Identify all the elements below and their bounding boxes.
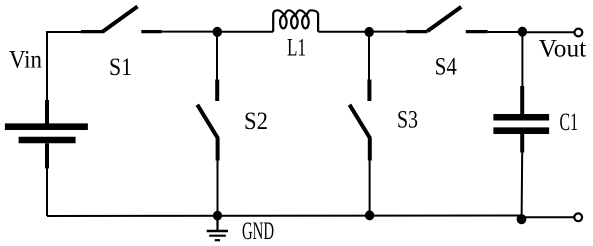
svg-text:Vout: Vout [539, 35, 587, 62]
wire: S4 left contact bar [406, 30, 427, 33]
node: S3 bottom junction dot [365, 210, 374, 220]
wire: node B to S4 [369, 31, 407, 33]
battery Vin [5, 100, 88, 168]
switch S3 [350, 32, 371, 216]
wire: S2 blade [197, 105, 218, 139]
wire: node B down to S3 [368, 32, 370, 80]
wire: S1 left contact bar [81, 30, 104, 33]
wire: S2 bottom contact bar [216, 138, 220, 161]
wire: battery bottom thick lead [45, 143, 49, 168]
wire: bottom ground rail [47, 215, 522, 218]
wire: S3 bottom contact bar [368, 138, 372, 161]
ground symbol [207, 216, 228, 241]
node B junction dot [365, 27, 374, 37]
svg-text:L1: L1 [287, 34, 306, 61]
wire: node C down to C1 [521, 32, 523, 87]
svg-text:Vin: Vin [9, 47, 42, 74]
svg-text:C1: C1 [560, 109, 579, 136]
wire: L1 to node B [318, 31, 369, 33]
svg-text:S4: S4 [435, 54, 457, 81]
wire: S3 to bottom rail [369, 160, 371, 216]
wire: node C to Vout terminal [523, 31, 575, 33]
terminal: bottom output open circle [574, 213, 582, 221]
svg-text:S3: S3 [397, 107, 418, 134]
C1 bottom plate [493, 127, 549, 134]
wire: S2 top contact bar [215, 80, 219, 102]
ground bar 2 [209, 235, 226, 237]
wire: ground stem [216, 216, 218, 231]
wire: bottom node to output terminal [522, 216, 575, 218]
wire: Vin positive lead up and top rail to S1 [47, 32, 81, 101]
wire: S3 blade [350, 105, 371, 139]
ground bar 1 [207, 230, 228, 233]
switch S1 [81, 7, 162, 32]
C1 top plate [493, 114, 549, 121]
ground bar 3 [215, 239, 220, 241]
wire: S4 blade [427, 7, 461, 31]
wire: C1 to bottom rail [521, 152, 524, 218]
svg-text:GND: GND [242, 218, 274, 245]
wire: S4 to node C [488, 31, 523, 33]
wire: S3 top contact bar [367, 80, 371, 102]
wire: battery negative lead to bottom rail [46, 168, 48, 216]
inductor L1 [273, 10, 318, 32]
svg-text:S2: S2 [244, 108, 268, 135]
switch S4 [406, 7, 487, 32]
wire: S1 right contact bar [141, 30, 161, 33]
wire: S2 to bottom rail [217, 160, 219, 216]
wire: C1 bottom thick lead [520, 134, 524, 153]
wire: C1 top thick lead [520, 86, 524, 114]
battery short plate [19, 137, 76, 144]
wire: node A to inductor L1 [217, 31, 273, 33]
node C junction dot [518, 27, 527, 37]
node: output bottom junction dot [517, 214, 527, 224]
battery long plate [5, 123, 88, 130]
capacitor C1 [493, 32, 549, 218]
wire: S1 to node A [162, 31, 217, 33]
wire: node A down to S2 [216, 32, 218, 80]
switch S2 [197, 32, 218, 216]
node A junction dot [213, 27, 222, 37]
ground node junction dot [213, 211, 222, 221]
wire: S4 right contact bar [466, 30, 488, 33]
wire: S1 blade [103, 7, 138, 32]
wire: battery top thick lead [45, 100, 49, 124]
svg-text:S1: S1 [109, 54, 132, 81]
terminal: Vout open circle [575, 29, 583, 37]
